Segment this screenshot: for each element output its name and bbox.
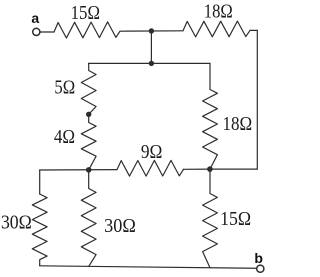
resistor R8 30 ohm (vertical, middle) [81,170,96,267]
resistor R5 9 ohm (middle, horizontal) [117,160,184,176]
wire: 15-ohm resistor through top node to 18-ohm resistor [120,30,183,32]
svg-text:15Ω: 15Ω [71,3,100,24]
svg-text:18Ω: 18Ω [204,1,233,22]
junction node: second rail [149,61,154,66]
terminal b [257,265,264,272]
svg-text:4Ω: 4Ω [54,127,75,148]
resistor R7 30 ohm (vertical, far left) [32,194,47,266]
svg-text:15Ω: 15Ω [220,209,251,230]
resistor R3 5 ohm (vertical, left) [81,63,96,114]
svg-text:b: b [254,250,263,266]
svg-text:18Ω: 18Ω [222,114,252,135]
junction node: top rail [149,28,154,33]
wire: right edge vertical [256,30,258,169]
wire: left edge vertical drop [39,170,41,194]
svg-text:5Ω: 5Ω [54,78,75,99]
svg-text:30Ω: 30Ω [104,216,136,237]
wire: second horizontal rail (5-ohm top to 18-ohm vertical top) [89,62,210,64]
wire: middle rail left segment [40,169,117,171]
wire: vertical link between top node and second rail [150,31,152,63]
wire: right edge bottom horizontal to node D [210,168,257,170]
wire: bottom rail [40,266,257,269]
wire: 18-ohm resistor to right edge [250,29,257,31]
resistor R1 15 ohm (top left, horizontal) [54,22,120,38]
svg-text:9Ω: 9Ω [141,142,163,163]
terminal a [33,28,40,35]
wire: 9-ohm resistor to node D [184,168,211,170]
wire: terminal a to 15-ohm resistor [40,31,54,33]
resistor R2 18 ohm (top right, horizontal) [183,21,250,37]
junction node: middle rail left (4-ohm / 30-ohm / 9-ohm) [86,167,92,173]
resistor R4 4 ohm (vertical, left) [81,114,96,170]
resistor R6 18 ohm (vertical, right) [203,63,218,169]
svg-text:a: a [31,10,39,26]
resistor R9 15 ohm (vertical, bottom right) [203,169,218,268]
junction node: between 5-ohm and 4-ohm [86,112,91,117]
junction node D: middle rail right (18-ohm / 9-ohm / 15-ohm) [207,166,213,172]
svg-text:30Ω: 30Ω [1,212,32,233]
